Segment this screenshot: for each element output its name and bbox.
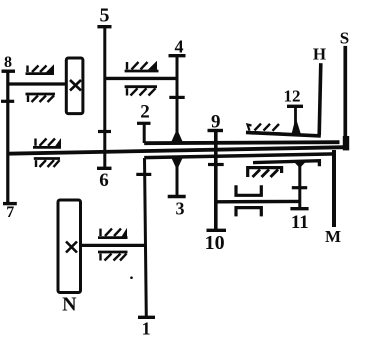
svg-text:8: 8	[4, 54, 12, 71]
svg-text:H: H	[313, 45, 326, 64]
svg-text:4: 4	[175, 37, 184, 57]
sliding clutch bracket upper	[236, 185, 261, 195]
lower countershaft (gears 10-11)	[216, 200, 300, 204]
gear 2 (on sleeve, above main shaft)	[137, 123, 151, 143]
sleeve pinion and gear 1 (long stem down to motor axis)	[136, 158, 155, 317]
gear 9 / gear 10 stem with caps and mesh tick	[207, 131, 227, 231]
main shaft (input shaft I)	[8, 147, 345, 154]
svg-text:2: 2	[140, 102, 150, 123]
stray scan speck	[130, 276, 133, 279]
bearing (hatch up) on carrier sleeve, right	[246, 124, 281, 134]
gear 4 / gear 3 stem with caps, mesh tick and cone triangles	[168, 56, 186, 197]
svg-text:S: S	[340, 29, 349, 48]
sleeve wall b (gear-2 sleeve to S)	[144, 142, 339, 143]
upper countershaft (gears 5-4)	[105, 77, 178, 80]
bearing (hatch down) on carrier sleeve, right	[248, 168, 282, 177]
svg-text:12: 12	[284, 87, 301, 106]
bearing (hatch up) on main shaft, left	[33, 139, 61, 148]
shaft S (sun shaft) with corner post	[343, 46, 349, 150]
svg-text:M: M	[325, 227, 341, 246]
bearing (hatch down) on motor shaft	[98, 252, 128, 261]
bearing (hatch up) on shaft 8, upper	[26, 66, 55, 74]
motor output shaft (from N)	[80, 244, 148, 247]
shaft H (planet carrier arm)	[319, 63, 321, 135]
shaft M (output, drops from main shaft corner)	[332, 150, 336, 227]
bearing (hatch down) on main shaft, left	[34, 159, 60, 168]
gear 5 / gear 6 (stem with caps and mesh tick)	[97, 27, 112, 169]
svg-text:3: 3	[176, 199, 185, 219]
svg-text:7: 7	[6, 204, 14, 221]
carrier wall a (to H)	[246, 133, 321, 136]
svg-text:N: N	[62, 294, 77, 316]
clutch / coupling box on shaft 8	[66, 58, 83, 114]
svg-text:11: 11	[291, 212, 309, 233]
svg-text:1: 1	[142, 319, 151, 339]
sleeve wall d (lower, to M corner)	[144, 154, 336, 158]
gear 12 (cap, stem, cone mount on carrier wall)	[287, 106, 303, 134]
shaft axis of gears 8 (upper-left)	[8, 82, 67, 85]
motor N box	[58, 200, 81, 293]
bearing (hatch up) on upper countershaft	[125, 62, 159, 71]
svg-text:10: 10	[205, 232, 225, 254]
bearing (hatch up) on motor shaft	[98, 229, 128, 238]
carrier wall e (lower)	[253, 161, 319, 167]
svg-text:9: 9	[211, 112, 221, 133]
svg-text:5: 5	[100, 5, 110, 27]
bearing (hatch down) on upper countershaft	[125, 87, 157, 96]
svg-text:6: 6	[99, 170, 109, 191]
gear 8 / gear 7 (left stem with caps and mesh tick)	[1, 71, 17, 203]
sliding clutch bracket lower	[236, 208, 261, 217]
gear 11 (cone mount under carrier wall, mesh tick, bottom cap)	[290, 162, 308, 209]
bearing (hatch down) on shaft 8, lower	[26, 94, 56, 102]
